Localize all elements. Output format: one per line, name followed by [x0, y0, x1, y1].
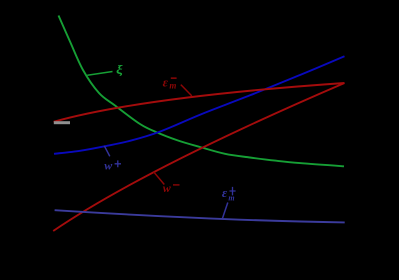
curve epsilon_m^- (dark red shallow curve) [54, 83, 345, 122]
curve w- (dark red steep curve) [53, 83, 344, 231]
curve w+ (blue rising curve) [54, 56, 345, 154]
svg-text:w: w [163, 181, 172, 195]
svg-text:m: m [228, 193, 234, 202]
svg-text:ξ: ξ [116, 62, 123, 77]
svg-text:ε: ε [163, 75, 169, 90]
gray marker bar at left end of epsilon_m^- curve [54, 121, 70, 124]
pointer line for label w- [154, 172, 165, 185]
curve epsilon_m^+ (dark slate-blue bottom curve) [55, 210, 345, 222]
svg-text:ε: ε [222, 185, 228, 200]
svg-text:w: w [104, 159, 113, 173]
curve xi (green decaying curve) [59, 16, 345, 167]
pointer line for label epsilon_m^+ [223, 203, 228, 219]
pointer line for label xi [87, 72, 112, 76]
pointer line for label w+ [104, 146, 110, 157]
svg-text:m: m [169, 81, 176, 91]
pointer line for label epsilon_m^- [181, 85, 192, 96]
